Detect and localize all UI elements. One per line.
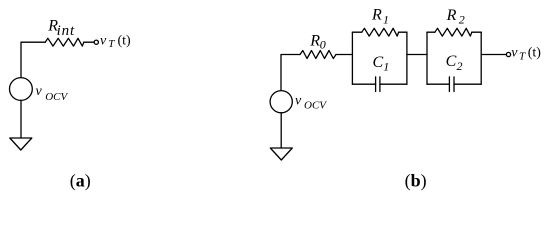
wire: RC1 top-right segment [399, 31, 407, 33]
capacitor C2 [448, 77, 450, 92]
wire: circuit b, left corner from source top up and right to R0 [281, 55, 300, 91]
resistor R1 [362, 28, 399, 36]
svg-text:2: 2 [459, 13, 465, 27]
svg-text:OCV: OCV [304, 100, 327, 112]
wire: RC1 right vertical [406, 32, 408, 84]
svg-text:2: 2 [457, 59, 463, 73]
svg-text:R: R [446, 7, 457, 24]
svg-text:0: 0 [320, 38, 326, 52]
wire: RC2 top-right segment [472, 31, 481, 33]
resistor R2 [435, 28, 472, 36]
wire: circuit a, left corner from source top up and right to resistor [21, 42, 45, 77]
svg-text:v: v [511, 46, 518, 61]
wire: RC1 bottom-right segment [380, 83, 407, 85]
svg-text:(t): (t) [528, 46, 542, 61]
svg-text:C: C [373, 54, 384, 71]
svg-text:R: R [371, 6, 382, 23]
svg-text:T: T [108, 38, 115, 50]
svg-text:int: int [57, 23, 76, 39]
wire: R0 to RC pair 1 [336, 54, 352, 56]
wire: RC2 to terminal b [481, 54, 506, 56]
resistor R0 [300, 51, 336, 59]
svg-text:R: R [309, 32, 320, 49]
wire: RC2 bottom-left segment [427, 83, 449, 85]
ground circuit b [270, 148, 292, 160]
wire: source bottom to ground, circuit b [280, 113, 282, 148]
terminal node vT(t) circuit b [506, 52, 510, 56]
resistor Rint [45, 38, 84, 46]
svg-text:v: v [100, 33, 107, 48]
svg-text:T: T [519, 51, 526, 63]
wire: RC1 bottom-left segment [352, 83, 375, 85]
voltage source vOCV circuit a [10, 78, 33, 101]
wire: RC2 bottom-right segment [454, 83, 481, 85]
wire: RC1 to RC2 [407, 54, 427, 56]
svg-text:C: C [446, 53, 457, 70]
svg-text:v: v [295, 94, 302, 109]
voltage source vOCV circuit b [270, 91, 292, 113]
ground circuit a [10, 138, 32, 150]
capacitor C1 [375, 77, 377, 92]
wire: RC1 left vertical [351, 32, 353, 84]
svg-text:(b): (b) [405, 171, 427, 192]
wire: RC2 left vertical [426, 32, 428, 84]
wire: Rint to terminal a [84, 41, 94, 43]
svg-text:1: 1 [383, 60, 389, 74]
wire: source bottom to ground, circuit a [20, 100, 22, 137]
svg-text:(a): (a) [70, 171, 91, 192]
svg-text:OCV: OCV [45, 91, 68, 103]
svg-text:(t): (t) [118, 33, 132, 48]
wire: RC2 top-left segment [427, 31, 435, 33]
terminal node vT(t) circuit a [94, 40, 98, 44]
svg-text:v: v [36, 84, 43, 99]
svg-text:1: 1 [383, 12, 389, 26]
wire: RC1 top-left segment [352, 31, 361, 33]
wire: RC2 right vertical [480, 32, 482, 84]
